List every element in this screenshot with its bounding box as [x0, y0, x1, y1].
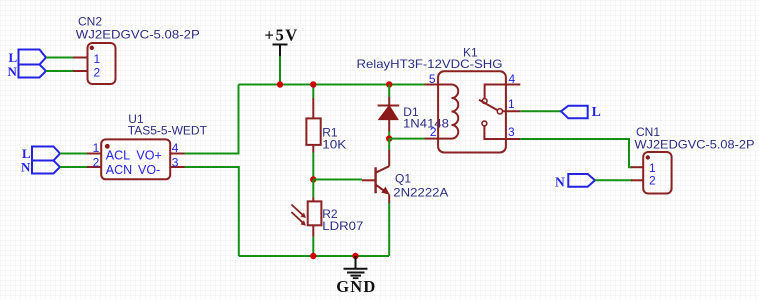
net flag L (to U1 pin 1): [22, 146, 60, 161]
svg-text:L: L: [592, 104, 601, 119]
wire +5V to rail: [279, 56, 281, 85]
svg-text:1: 1: [94, 52, 101, 66]
svg-text:2: 2: [430, 125, 437, 139]
svg-text:1: 1: [508, 97, 515, 111]
wire U1 pin4 to +5V rail: [185, 85, 239, 154]
wire L flag to CN2 pin1: [46, 57, 73, 59]
wire Q1 emitter to GND rail: [388, 203, 390, 256]
svg-text:VO-: VO-: [138, 163, 160, 177]
svg-text:10K: 10K: [322, 137, 346, 151]
svg-text:2: 2: [649, 174, 656, 188]
svg-text:L: L: [9, 50, 18, 65]
net flag L (relay output): [561, 104, 601, 119]
svg-text:ACN: ACN: [106, 163, 132, 177]
wire N flag to CN1 pin2: [595, 179, 632, 181]
svg-text:2N2222A: 2N2222A: [393, 186, 448, 200]
wire N flag to CN2 pin2: [46, 70, 73, 72]
wire N flag to U1 pin2: [60, 166, 87, 168]
wire node down to Q1 collector: [388, 139, 390, 150]
net flag L (to CN2 pin 1): [9, 50, 47, 66]
+5V rail wire: [239, 84, 425, 86]
svg-text:CN2: CN2: [78, 15, 102, 29]
wire U1 pin3 to GND rail: [185, 167, 239, 256]
svg-text:1N4148: 1N4148: [403, 117, 449, 131]
svg-text:Q1: Q1: [395, 172, 411, 186]
resistor R1 10K: [306, 98, 346, 153]
photoresistor R2 LDR07: [291, 198, 363, 237]
svg-text:N: N: [21, 159, 31, 174]
svg-text:+5V: +5V: [265, 25, 299, 44]
wire node to R2 top: [312, 180, 314, 198]
svg-text:ACL: ACL: [106, 149, 130, 163]
wire R2 bottom to GND rail: [312, 237, 314, 256]
wire node to Q1 base: [313, 179, 362, 181]
svg-text:5: 5: [429, 72, 436, 86]
junction R1/rail: [310, 81, 316, 87]
svg-text:3: 3: [508, 125, 515, 139]
junction D1 top / rail: [386, 81, 392, 87]
junction GND stem/rail: [352, 253, 358, 259]
diode D1 1N4148: [378, 97, 450, 132]
wire node to K1 pin2: [389, 138, 424, 140]
wire R1 bottom to node: [312, 153, 314, 180]
ground symbol GND: [336, 256, 376, 296]
relay coil: [438, 85, 458, 139]
svg-text:4: 4: [509, 72, 516, 86]
connector CN2: [73, 15, 200, 85]
wire D1 anode to node: [388, 132, 390, 139]
relay pins: [425, 84, 439, 86]
svg-text:4: 4: [172, 141, 179, 155]
wire rail to R1 top: [312, 85, 314, 99]
wire L flag to U1 pin1: [60, 153, 87, 155]
svg-text:3: 3: [172, 155, 179, 169]
GND rail wire: [239, 255, 389, 257]
svg-text:RelayHT3F-12VDC-SHG: RelayHT3F-12VDC-SHG: [357, 57, 503, 71]
svg-text:WJ2EDGVC-5.08-2P: WJ2EDGVC-5.08-2P: [635, 138, 755, 152]
junction R1/R2/base node: [310, 176, 316, 182]
svg-text:WJ2EDGVC-5.08-2P: WJ2EDGVC-5.08-2P: [76, 28, 200, 42]
svg-text:LDR07: LDR07: [322, 219, 363, 233]
relay K1 RelayHT3F-12VDC-SHG: [357, 46, 521, 153]
net flag N (to CN2 pin 2): [8, 64, 47, 79]
svg-text:1: 1: [93, 141, 100, 155]
svg-text:TAS5-5-WEDT: TAS5-5-WEDT: [128, 124, 208, 138]
connector CN1: [631, 125, 755, 194]
svg-text:GND: GND: [336, 277, 376, 296]
svg-text:2: 2: [94, 65, 101, 79]
junction +5V/rail: [277, 81, 283, 87]
wire rail to D1 cathode: [388, 85, 390, 98]
power module U1 TAS5-5-WEDT: [87, 112, 208, 179]
wire K1 pin1 to L flag: [520, 110, 561, 112]
svg-text:2: 2: [93, 155, 100, 169]
junction D1/K1 coil/Q1 collector: [386, 135, 392, 141]
wire K1 pin3 to CN1 pin1: [520, 139, 632, 167]
transistor Q1 2N2222A: [362, 150, 448, 203]
power symbol +5V: [265, 25, 299, 56]
relay switch contacts: [485, 85, 507, 99]
svg-text:VO+: VO+: [136, 149, 161, 163]
net flag N (to CN1 pin 2): [555, 174, 595, 189]
junction R2/GND rail: [310, 253, 316, 259]
svg-text:N: N: [8, 64, 18, 79]
net flag N (to U1 pin 2): [21, 159, 60, 174]
svg-text:N: N: [555, 174, 565, 189]
